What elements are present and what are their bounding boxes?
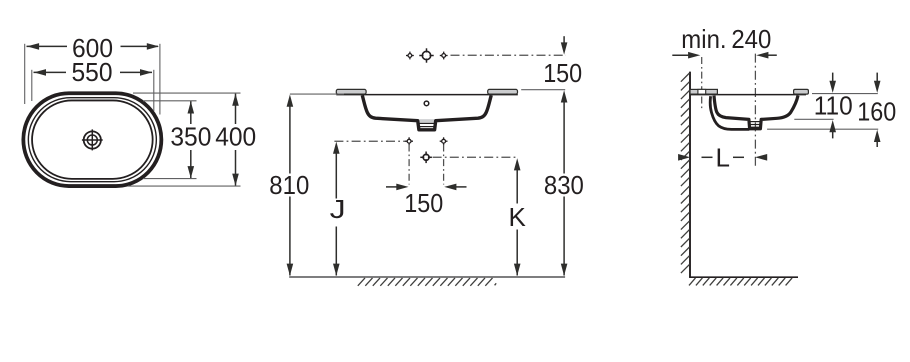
rim extension line right bbox=[521, 89, 565, 91]
dim 550 bbox=[34, 57, 153, 87]
bowl outer shell side bbox=[710, 96, 749, 129]
svg-text:160: 160 bbox=[857, 96, 896, 126]
right tab side bbox=[794, 89, 809, 94]
drain thread lines side bbox=[750, 121, 760, 123]
svg-text:350: 350 bbox=[170, 122, 211, 152]
faucet centre dash-dot line bbox=[451, 54, 567, 56]
wall line bbox=[689, 72, 691, 278]
centreline to K bbox=[433, 156, 518, 158]
rim line side bbox=[690, 94, 806, 96]
rim line front bbox=[336, 94, 518, 96]
hole mark lower left bbox=[405, 137, 413, 145]
dim 350 bbox=[170, 101, 211, 178]
faucet centreline side bbox=[701, 57, 703, 89]
faucet hole mark centre bbox=[419, 48, 433, 62]
hole mark lower right bbox=[440, 137, 448, 145]
right mounting tab front bbox=[488, 89, 518, 94]
dim 830 bbox=[544, 90, 584, 275]
svg-text:400: 400 bbox=[215, 122, 256, 152]
rim extension line left bbox=[290, 93, 344, 95]
dim 600 extension lines bbox=[24, 44, 26, 104]
svg-text:K: K bbox=[509, 202, 527, 232]
svg-text:830: 830 bbox=[544, 170, 584, 200]
bowl inner outline side bbox=[714, 96, 798, 129]
svg-text:150: 150 bbox=[404, 188, 443, 218]
svg-text:110: 110 bbox=[814, 91, 853, 121]
svg-text:J: J bbox=[330, 194, 346, 224]
wall hatching bbox=[681, 73, 690, 273]
middle rim oval bbox=[28, 98, 156, 182]
svg-text:550: 550 bbox=[72, 57, 113, 87]
dim 150 (faucet to rim) bbox=[543, 36, 582, 88]
dim 550 extension lines bbox=[31, 70, 33, 101]
faucet hole mark left bbox=[406, 52, 414, 60]
min240 arrows bbox=[672, 52, 777, 59]
drain bottom extension bbox=[767, 128, 878, 130]
rim extension right view bbox=[812, 93, 878, 95]
floor line middle bbox=[289, 276, 565, 278]
floor line right bbox=[689, 276, 798, 278]
vertical centreline right hole bbox=[443, 145, 445, 185]
centreline to J bbox=[334, 140, 406, 142]
left mounting tab front bbox=[336, 89, 366, 94]
dim 110 bbox=[814, 73, 853, 139]
svg-text:150: 150 bbox=[543, 58, 582, 88]
bowl bottom extension bbox=[794, 118, 833, 120]
drain crosshair symbol bbox=[82, 129, 103, 150]
faucet hole notch bbox=[698, 89, 706, 94]
dim L bbox=[678, 142, 767, 172]
dim 160 bbox=[857, 73, 896, 147]
dim K bbox=[509, 158, 527, 276]
faucet hole mark right bbox=[440, 52, 448, 60]
dim J bbox=[330, 142, 346, 276]
dim 400 bbox=[215, 94, 256, 186]
dim 150 hole spacing bbox=[386, 184, 467, 219]
vertical centreline left hole bbox=[408, 145, 410, 185]
bowl outline front bbox=[362, 95, 491, 130]
svg-text:810: 810 bbox=[269, 170, 309, 200]
left tab side bbox=[690, 89, 717, 94]
outer rim oval bbox=[23, 93, 161, 186]
dim 350/400 extension lines bbox=[133, 92, 241, 94]
overflow hole front bbox=[424, 101, 429, 106]
drain shading front bbox=[419, 119, 434, 122]
inner basin oval bbox=[32, 100, 153, 178]
floor hatching right bbox=[689, 278, 792, 286]
drain target mark bbox=[420, 152, 432, 164]
svg-text:min. 240: min. 240 bbox=[681, 24, 771, 54]
basin centreline side bbox=[754, 54, 756, 167]
dim 810 bbox=[269, 95, 309, 276]
dim 600 bbox=[27, 33, 160, 63]
drain thread lines front bbox=[419, 122, 434, 124]
svg-text:L: L bbox=[715, 142, 729, 172]
floor hatching middle bbox=[358, 278, 496, 286]
